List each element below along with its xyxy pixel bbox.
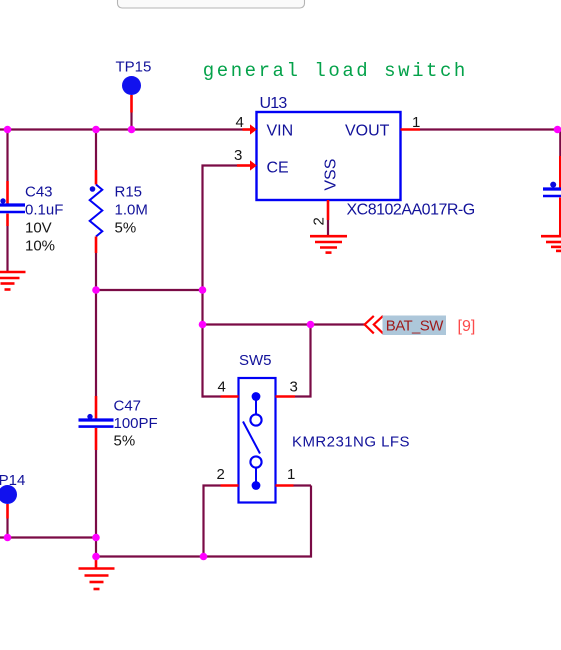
capacitor right pin stub bottom xyxy=(559,198,561,236)
svg-text:1: 1 xyxy=(287,466,295,483)
wire C43 to ground xyxy=(6,226,8,271)
wire TP15 to main net xyxy=(130,113,132,130)
resistor R15 pin stub bottom xyxy=(95,237,98,254)
wire CE net corner xyxy=(203,166,238,292)
svg-text:4: 4 xyxy=(218,379,226,396)
capacitor C43 plates xyxy=(0,205,25,212)
svg-text:SW5: SW5 xyxy=(239,352,272,369)
svg-text:10%: 10% xyxy=(25,237,55,254)
toolbar fragment top xyxy=(118,0,305,8)
svg-text:R15: R15 xyxy=(115,183,143,200)
wire CE column to BAT_SW net xyxy=(201,290,203,398)
capacitor C43 polarity dot xyxy=(0,198,5,203)
svg-text:3: 3 xyxy=(234,147,242,164)
SW5 pin stub 4 xyxy=(221,395,239,398)
svg-text:[9]: [9] xyxy=(458,318,476,335)
capacitor C47 labels xyxy=(114,397,158,449)
capacitor right pin stub top xyxy=(559,156,561,190)
resistor R15 pin stub top xyxy=(95,170,98,185)
wire right cap branch xyxy=(559,130,561,157)
test point TP14 xyxy=(0,485,17,504)
capacitor C47 pin stub bottom xyxy=(95,428,98,450)
wire BAT_SW horizontal xyxy=(203,323,365,325)
wire TP14 to bottom net xyxy=(6,519,8,538)
wire VSS to ground xyxy=(327,220,329,235)
net label highlight xyxy=(383,316,447,336)
svg-text:KMR231NG LFS: KMR231NG LFS xyxy=(292,434,410,451)
pin 1 stub xyxy=(401,128,421,131)
wire TP14 pin stub xyxy=(6,504,9,519)
svg-text:general load switch: general load switch xyxy=(203,60,468,82)
op-amp U13 body xyxy=(257,112,401,200)
svg-text:5%: 5% xyxy=(114,433,136,450)
svg-text:TP15: TP15 xyxy=(116,58,152,75)
capacitor C43 labels xyxy=(25,183,63,254)
test point TP15 xyxy=(122,76,141,95)
wire C43 branch upper xyxy=(6,130,8,182)
svg-text:XC8102AA017R-G: XC8102AA017R-G xyxy=(347,202,475,219)
svg-text:2: 2 xyxy=(311,217,328,225)
wire bottom net 1 xyxy=(0,536,96,538)
wire to SW5 pin 4 xyxy=(203,395,221,397)
capacitor C43 pin stub bottom xyxy=(6,214,9,227)
svg-text:0.1uF: 0.1uF xyxy=(25,201,63,218)
wire SW5 pin 1 corner xyxy=(294,484,312,486)
ground right xyxy=(541,236,561,251)
SW5 pin stub 3 xyxy=(276,395,296,398)
SW5 pin stub 1 xyxy=(276,484,294,487)
svg-text:U13: U13 xyxy=(260,95,288,112)
wire SW5 pin 2 to bottom net xyxy=(204,486,221,557)
svg-text:C43: C43 xyxy=(25,183,53,200)
wire main horizontal net VIN xyxy=(0,128,243,130)
ground under C43 xyxy=(0,272,26,290)
capacitor C47 pin stub top xyxy=(95,396,98,419)
wire ground stem xyxy=(95,557,98,569)
resistor R15 polarity dot xyxy=(90,186,96,192)
wire bottom net 2 xyxy=(96,486,311,557)
svg-text:5%: 5% xyxy=(115,219,137,236)
svg-text:10V: 10V xyxy=(25,219,52,236)
capacitor C47 plates xyxy=(79,420,114,427)
svg-text:C47: C47 xyxy=(114,397,142,414)
ground bottom net xyxy=(79,569,115,590)
wire TP15 pin stub xyxy=(130,95,133,113)
capacitor C43 pin stub top xyxy=(6,181,9,204)
wire C47 branch upper xyxy=(95,290,97,396)
capacitor right plates xyxy=(543,189,561,196)
pin 4 stub with arrow xyxy=(243,128,251,131)
svg-text:VIN: VIN xyxy=(267,123,294,140)
svg-text:100PF: 100PF xyxy=(114,415,158,432)
capacitor C47 polarity dot xyxy=(87,414,92,419)
svg-text:BAT_SW: BAT_SW xyxy=(386,318,444,335)
svg-text:2: 2 xyxy=(217,466,225,483)
svg-text:VOUT: VOUT xyxy=(345,123,390,140)
SW5 pin stub 2 xyxy=(221,484,239,487)
resistor R15 zigzag xyxy=(90,185,103,237)
resistor R15 labels xyxy=(115,183,148,236)
capacitor right polarity dot xyxy=(550,182,556,188)
svg-text:3: 3 xyxy=(290,379,298,396)
svg-text:1.0M: 1.0M xyxy=(115,201,148,218)
svg-text:CE: CE xyxy=(267,160,289,177)
wire R15 lower xyxy=(95,253,97,291)
wire C47 to bottom net xyxy=(95,450,97,558)
wire horizontal R15 to CE net xyxy=(96,289,204,291)
switch SW5 internals xyxy=(243,392,262,490)
ground under U13 xyxy=(310,236,347,252)
svg-text:VSS: VSS xyxy=(323,159,340,191)
wire VOUT net xyxy=(420,128,558,130)
wire R15 branch upper xyxy=(95,130,97,171)
wire to SW5 pin 3 xyxy=(295,325,311,397)
pin 3 stub with arrow xyxy=(237,164,250,167)
switch SW5 body xyxy=(239,378,276,503)
off-page connector BAT_SW xyxy=(365,316,383,334)
pin 2 stub xyxy=(327,200,330,220)
